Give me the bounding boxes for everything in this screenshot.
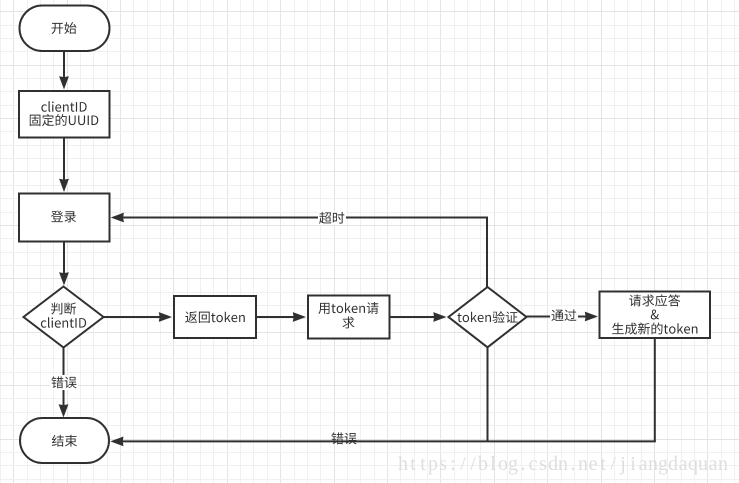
wire: 用token请求 box to decision token验证 [390, 312, 447, 322]
wire: start to clientID box [59, 51, 69, 90]
wire: timeout feedback, token验证 top up and left to login (超时) [111, 213, 487, 287]
edge label 错误 (upper, vertical line) [50, 375, 78, 390]
process box 请求应答 & 生成新的token [600, 292, 711, 339]
wire: bottom error line left to end (错误) [110, 437, 656, 447]
edge label 超时 [318, 211, 346, 225]
terminator 结束 [20, 418, 109, 463]
wire: 返回token box to 用token请求 box [256, 312, 306, 322]
wire: token验证 bottom down [487, 347, 489, 441]
decision 判断clientID [24, 287, 104, 348]
wire: 请求应答 box bottom down [654, 338, 656, 441]
wire: clientID box to login box [59, 138, 69, 193]
decision token验证 [449, 287, 527, 347]
process box clientID 固定的UUID [19, 91, 110, 138]
wire: login box to decision clientID [59, 242, 69, 286]
wire: decision clientID to 返回token box [104, 312, 173, 322]
process box 登录 [19, 194, 110, 242]
process box 用token请求 [308, 296, 390, 339]
process box 返回token [174, 296, 256, 338]
wire: decision token验证 to 请求应答 box (通过) [527, 312, 599, 322]
watermark https://blog.csdn.net/jiangdaquan [398, 453, 728, 475]
edge label 错误 (bottom line) [331, 432, 356, 444]
terminator 开始 [20, 6, 110, 52]
wire: decision clientID down to end (错误) [59, 348, 69, 418]
edge label 通过 [550, 309, 578, 323]
